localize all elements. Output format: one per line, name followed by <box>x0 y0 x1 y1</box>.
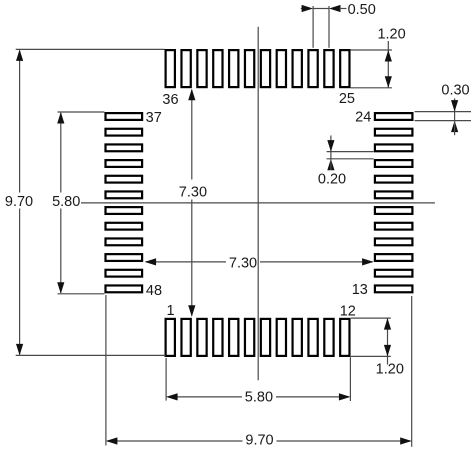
pad pin 5 (bottom row) <box>229 319 238 356</box>
svg-text:0.50: 0.50 <box>348 2 376 18</box>
pad pin 9 (bottom row) <box>293 319 302 356</box>
dimension 1.20 bottom-right: down arrowhead <box>384 345 391 357</box>
pad pin 32 (top row) <box>229 50 238 87</box>
svg-text:0.20: 0.20 <box>318 171 346 187</box>
dimension 0.50 pitch: right arrow tail <box>340 8 347 10</box>
pad pin 3 (bottom row) <box>197 319 206 356</box>
svg-text:1.20: 1.20 <box>377 26 405 42</box>
dimension 0.50 pitch: left arrowhead (points right) <box>302 5 314 12</box>
pad pin 11 (bottom row) <box>324 319 333 356</box>
dimension 7.30 vertical: dimension line lower segment <box>191 200 193 316</box>
dimension 0.50 pitch: left arrow tail <box>301 8 304 10</box>
dimension 1.20 top-right: upper extension line <box>351 49 392 51</box>
dimension 9.70 bottom: dimension line left segment <box>107 440 243 442</box>
dimension 9.70 left: down arrowhead <box>16 344 23 356</box>
pad pin 26 (top row) <box>324 50 333 87</box>
svg-text:48: 48 <box>146 283 162 299</box>
pad pin 13 (right column) <box>375 285 413 292</box>
dimension 0.30 right: middle segment <box>454 112 456 121</box>
dimension 1.20 bottom-right: lower extension line <box>351 355 391 357</box>
pad pin 6 (bottom row) <box>245 319 254 356</box>
dimension 7.30 horizontal: dimension line right segment <box>260 261 373 263</box>
dimension 5.80 bottom: right extension line (pad 12 right) <box>349 357 351 401</box>
dimension 1.20 bottom-right: up arrowhead <box>384 318 391 330</box>
dimension 7.30 vertical: down arrowhead <box>188 305 195 317</box>
pad pin 10 (bottom row) <box>308 319 317 356</box>
pad pin 45 (left column) <box>106 238 143 245</box>
pad pin 12 (bottom row) <box>340 319 349 356</box>
pad pin 28 (top row) <box>293 50 302 87</box>
svg-text:13: 13 <box>352 282 368 298</box>
pad pin 23 (right column) <box>375 129 413 136</box>
pad pin 36 (top row) <box>166 50 175 87</box>
svg-text:0.30: 0.30 <box>441 82 469 98</box>
pad pin 38 (left column) <box>106 129 143 136</box>
dimension 5.80 bottom: dimension line left segment <box>168 396 243 398</box>
svg-text:5.80: 5.80 <box>52 194 80 210</box>
dimension 1.20 top-right: dimension line <box>387 41 389 88</box>
pad pin 24 (right column) <box>375 113 413 120</box>
pad pin 42 (left column) <box>106 191 143 198</box>
dimension 0.20 right: middle segment <box>330 152 332 159</box>
dimension 7.30 vertical: dimension line upper segment <box>191 90 193 180</box>
dimension 0.20 right: lower arrow tail <box>330 159 332 170</box>
pad pin 21 (right column) <box>375 160 413 167</box>
pad pin 39 (left column) <box>106 144 143 151</box>
pad pin 16 (right column) <box>375 238 413 245</box>
pad pin 43 (left column) <box>106 207 143 214</box>
dimension 5.80 left: bottom extension line <box>58 293 105 295</box>
svg-text:24: 24 <box>355 109 371 125</box>
pad pin 46 (left column) <box>106 254 143 261</box>
dimension 1.20 top-right: lower extension line <box>351 87 392 89</box>
vertical centerline <box>257 27 259 381</box>
pad pin 15 (right column) <box>375 254 413 261</box>
dimension 9.70 bottom: left extension line (pad 48 outer edge) <box>105 295 107 446</box>
pad pin 30 (top row) <box>261 50 270 87</box>
dimension 0.30 right: lower extension line <box>415 120 471 122</box>
pad pin 37 (left column) <box>106 113 143 120</box>
pad pin 35 (top row) <box>181 50 190 87</box>
dimension 1.20 top-right: up arrowhead <box>385 50 392 62</box>
pad pin 8 (bottom row) <box>277 319 286 356</box>
dimension 5.80 bottom: right arrowhead <box>339 393 351 400</box>
dimension 0.30 right: down arrowhead (tip on upper line) <box>451 100 458 112</box>
pad pin 29 (top row) <box>277 50 286 87</box>
dimension 0.20 right: lower extension line (pad 21 top) <box>327 158 374 160</box>
svg-text:36: 36 <box>162 92 178 108</box>
dimension 9.70 bottom: dimension line right segment <box>277 440 411 442</box>
dimension 9.70 left: bottom extension line <box>16 354 166 356</box>
svg-text:12: 12 <box>340 304 356 320</box>
pad pin 14 (right column) <box>375 270 413 277</box>
dimension 9.70 left: top extension line <box>16 48 165 50</box>
dimension 9.70 left: dimension line lower segment <box>19 209 21 355</box>
pad pin 27 (top row) <box>308 50 317 87</box>
dimension 0.50 pitch: right extension line (pad 26 center) <box>328 6 330 48</box>
pad pin 48 (left column) <box>106 285 143 292</box>
pad pin 44 (left column) <box>106 223 143 230</box>
dimension 1.20 top-right: down arrowhead <box>385 76 392 88</box>
dimension 5.80 left: down arrowhead <box>57 282 64 294</box>
pad pin 40 (left column) <box>106 160 143 167</box>
dimension 1.20 bottom-right: upper extension line <box>351 317 391 319</box>
dimension 0.20 right: up arrowhead <box>327 159 334 171</box>
dimension 5.80 left: top extension line <box>58 111 105 113</box>
dimension 0.30 right: lower arrow tail <box>454 121 456 136</box>
dimension 5.80 bottom: left extension line (pad 1 left) <box>165 358 167 401</box>
pad pin 1 (bottom row) <box>166 319 175 356</box>
svg-text:9.70: 9.70 <box>245 433 273 449</box>
svg-text:25: 25 <box>339 91 355 107</box>
pad pin 25 (top row) <box>340 50 349 87</box>
svg-text:9.70: 9.70 <box>5 194 33 210</box>
dimension 5.80 left: dimension line lower segment <box>60 209 62 293</box>
dimension 0.50 pitch: middle segment <box>313 8 329 10</box>
pad pin 47 (left column) <box>106 270 143 277</box>
dimension 0.20 right: upper arrow tail <box>330 136 332 152</box>
dimension 5.80 left: up arrowhead <box>57 112 64 124</box>
dimension 0.30 right: up arrowhead (tip on lower line) <box>451 121 458 133</box>
dimension 9.70 bottom: left arrowhead <box>106 437 118 444</box>
pad pin 4 (bottom row) <box>213 319 222 356</box>
svg-text:5.80: 5.80 <box>245 390 273 406</box>
horizontal centerline <box>81 202 435 204</box>
dimension 0.20 right: down arrowhead <box>327 140 334 152</box>
svg-text:37: 37 <box>146 110 162 126</box>
pad pin 2 (bottom row) <box>181 319 190 356</box>
dimension 0.50 pitch: right arrowhead (points left) <box>329 5 341 12</box>
dimension 0.30 right: upper arrow tail <box>454 98 456 111</box>
svg-text:7.30: 7.30 <box>179 185 207 201</box>
pad pin 17 (right column) <box>375 223 413 230</box>
dimension 9.70 bottom: right arrowhead <box>400 437 412 444</box>
dimension 0.30 right: upper extension line <box>415 111 471 113</box>
svg-text:1: 1 <box>166 303 174 319</box>
pad pin 22 (right column) <box>375 144 413 151</box>
pad pin 20 (right column) <box>375 176 413 183</box>
dimension 5.80 bottom: dimension line right segment <box>276 396 349 398</box>
dimension 1.20 bottom-right: dimension line <box>387 318 389 364</box>
svg-text:7.30: 7.30 <box>229 256 257 272</box>
dimension 9.70 left: up arrowhead <box>16 49 23 61</box>
dimension 7.30 horizontal: right arrowhead <box>362 258 374 265</box>
pad pin 41 (left column) <box>106 176 143 183</box>
dimension 0.50 pitch: left extension line (pad 27 center) <box>312 6 314 48</box>
dimension 0.20 right: upper extension line (pad 22 bottom) <box>327 151 374 153</box>
pad pin 34 (top row) <box>197 50 206 87</box>
pad pin 7 (bottom row) <box>261 319 270 356</box>
pad pin 33 (top row) <box>213 50 222 87</box>
dimension 9.70 bottom: right extension line (pad 13 outer edge) <box>411 296 413 447</box>
dimension 9.70 left: dimension line upper segment <box>19 51 21 193</box>
dimension 5.80 left: dimension line upper segment <box>60 113 62 193</box>
dimension 7.30 horizontal: dimension line left segment <box>146 261 226 263</box>
dimension 5.80 bottom: left arrowhead <box>166 393 178 400</box>
pad pin 18 (right column) <box>375 207 413 214</box>
svg-text:1.20: 1.20 <box>376 362 404 378</box>
pad pin 19 (right column) <box>375 191 413 198</box>
pad pin 31 (top row) <box>245 50 254 87</box>
dimension 7.30 horizontal: left arrowhead <box>145 258 157 265</box>
dimension 7.30 vertical: up arrowhead <box>188 89 195 101</box>
